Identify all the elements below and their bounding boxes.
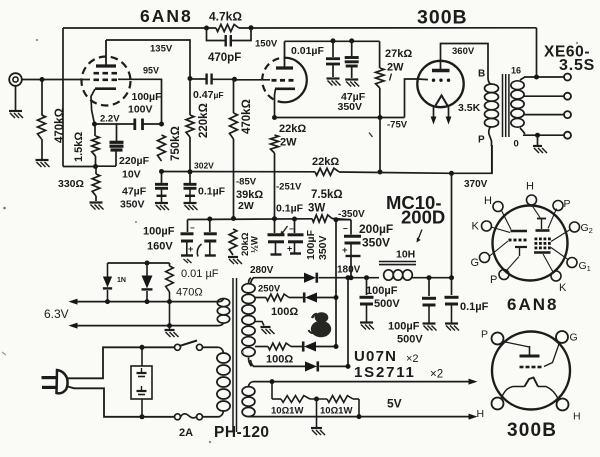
transformer T2 HV secondary winding bbox=[242, 284, 255, 293]
svg-text:22kΩ: 22kΩ bbox=[279, 123, 306, 135]
wire V1b plate stem bbox=[284, 41, 286, 66]
socket 300B pin H left bbox=[492, 398, 504, 410]
svg-text:470pF: 470pF bbox=[208, 52, 241, 64]
plug AC mains bbox=[57, 370, 68, 393]
wire bus to -350V corner bbox=[332, 219, 351, 220]
capacitor 100uF 500V second bbox=[428, 278, 430, 296]
svg-text:47µF: 47µF bbox=[122, 186, 147, 198]
ground 0.1uF bus bbox=[184, 202, 197, 204]
wire HV tap 250V lower bbox=[255, 346, 268, 348]
wire V2 plate to 360V bbox=[441, 44, 489, 79]
wire to fuse bbox=[142, 416, 174, 418]
capacitor 0.1uF output bbox=[451, 278, 453, 295]
node 27k bottom junction bbox=[378, 115, 383, 120]
resistor 100Ohm row3 bbox=[268, 343, 291, 350]
svg-text:B: B bbox=[478, 69, 485, 80]
tube V1a plate bar bbox=[96, 64, 116, 67]
wire 27k column to 302V bus bbox=[379, 118, 381, 173]
socket 300B base circle bbox=[492, 332, 570, 410]
node 47uF junction bbox=[349, 38, 354, 43]
socket 6AN8 pin K left bbox=[482, 221, 492, 231]
socket 300B grid dashes bbox=[520, 366, 524, 369]
svg-text:6AN8: 6AN8 bbox=[140, 6, 193, 26]
svg-text:5V: 5V bbox=[387, 397, 402, 411]
wire 470pF parallel loop bbox=[207, 28, 225, 41]
node 22k2W top junction bbox=[272, 115, 277, 120]
socket 300B pin G bbox=[556, 331, 568, 343]
resistor 22kOhm bus dropper bbox=[315, 168, 339, 175]
svg-text:750kΩ: 750kΩ bbox=[170, 126, 182, 161]
wire D1 to rail bbox=[319, 277, 380, 279]
svg-text:3.5K: 3.5K bbox=[458, 102, 481, 114]
wire screen 95V lead bbox=[118, 79, 162, 124]
svg-text:P: P bbox=[564, 198, 571, 210]
socket 6AN8 triode element bbox=[511, 230, 528, 233]
svg-text:−: − bbox=[289, 225, 294, 234]
wire 6.3V bottom lead bbox=[218, 323, 224, 326]
resistor 20kOhm halfW bleeder bbox=[229, 229, 237, 255]
node 750k bottom bbox=[159, 169, 164, 174]
node right drop junction bbox=[357, 414, 362, 419]
svg-text:G: G bbox=[471, 257, 480, 269]
svg-text:350V: 350V bbox=[120, 199, 145, 211]
capacitor line filter box bbox=[141, 347, 143, 366]
node D6 bottom junction bbox=[145, 299, 150, 304]
svg-text:3W: 3W bbox=[308, 203, 325, 215]
socket 300B plate bbox=[503, 342, 530, 348]
svg-text:2W: 2W bbox=[387, 62, 404, 74]
transformer T2 5V winding bbox=[242, 387, 255, 396]
wire 470k#2 column bbox=[233, 79, 235, 113]
socket 300B grid connection bbox=[544, 343, 560, 367]
mark ink blob bbox=[315, 312, 329, 323]
mark stray tick bbox=[390, 74, 392, 81]
capacitor 47uF 350V bus bypass bbox=[161, 172, 163, 184]
svg-text:3.5S: 3.5S bbox=[559, 57, 595, 74]
node line cap bottom bbox=[140, 414, 145, 419]
terminal speaker 0 bbox=[564, 132, 571, 139]
socket 6AN8 pin K bottom-right bbox=[551, 271, 561, 281]
svg-text:300B: 300B bbox=[507, 420, 557, 441]
svg-text:100µF: 100µF bbox=[143, 226, 175, 238]
svg-text:10H: 10H bbox=[396, 249, 415, 261]
svg-text:470kΩ: 470kΩ bbox=[54, 108, 66, 143]
wire 6.3V top line bbox=[77, 301, 218, 303]
ground 20k bleeder bbox=[228, 256, 238, 258]
node -350V corner junction bbox=[334, 217, 339, 222]
svg-text:302V: 302V bbox=[194, 161, 214, 171]
wire V1a cathode lead bbox=[91, 89, 95, 124]
node screen/100uF junction bbox=[159, 122, 164, 127]
svg-text:H: H bbox=[573, 411, 581, 423]
capacitor 0.01uF-B bbox=[209, 219, 211, 232]
wire primary bottom lead bbox=[218, 412, 224, 417]
wire input to grid bbox=[22, 79, 90, 81]
wire secondary tap 8 bbox=[524, 95, 564, 97]
node 370V junction bbox=[449, 171, 454, 176]
wire to switch bbox=[142, 346, 174, 348]
svg-text:H: H bbox=[484, 195, 492, 207]
node 470 on 6.3V top bbox=[167, 299, 172, 304]
node 10ohm left junction bbox=[270, 379, 275, 384]
wire 6.3V bottom line bbox=[77, 325, 218, 327]
node input jack J1 bbox=[9, 73, 22, 86]
svg-text:1N: 1N bbox=[117, 277, 126, 284]
svg-text:0.01µF: 0.01µF bbox=[291, 45, 324, 57]
svg-text:P: P bbox=[478, 135, 485, 146]
svg-text:6AN8: 6AN8 bbox=[507, 295, 558, 314]
tube V1a 6AN8 pentode envelope (dashed circle) bbox=[82, 57, 131, 106]
ground 0.01uF bbox=[327, 77, 340, 79]
ground 470k bbox=[36, 159, 49, 161]
wire V2 grid lead bbox=[418, 78, 429, 81]
resistor 10Ohm 1W left bbox=[272, 398, 281, 400]
node row4 riser bbox=[346, 364, 351, 369]
tube V1b cathode bar bbox=[275, 88, 295, 91]
node 22k2W bottom -251V bbox=[272, 216, 277, 221]
capacitor 470pF bbox=[224, 35, 226, 47]
terminal speaker 16 bbox=[564, 74, 571, 81]
wire V1a plate stem bbox=[105, 40, 107, 65]
wire 5V top rail bbox=[253, 381, 469, 383]
capacitor 47uF 350V decoupling bbox=[351, 41, 353, 56]
ground 47uF bus bbox=[155, 202, 168, 204]
svg-text:150V: 150V bbox=[255, 39, 278, 50]
node feedback/4.7k left bbox=[204, 26, 209, 31]
socket 6AN8 pin H upper-left bbox=[493, 202, 503, 212]
svg-text:350V: 350V bbox=[338, 101, 363, 113]
wire 5V top lead bbox=[249, 382, 254, 387]
wire secondary tap 4 bbox=[524, 114, 564, 116]
resistor 220kOhm bbox=[186, 115, 194, 137]
wire 135V plate line bbox=[106, 40, 190, 79]
svg-text:350V: 350V bbox=[317, 235, 329, 260]
diode D6 bias bbox=[146, 263, 148, 276]
svg-text:100Ω: 100Ω bbox=[271, 306, 298, 318]
resistor 470Ohm bias bbox=[169, 263, 171, 266]
node coupling junction 0.47uF bbox=[188, 76, 193, 81]
wire 220k bottom bbox=[189, 137, 191, 172]
socket 6AN8 pin P upper-right bbox=[553, 201, 563, 211]
svg-text:H: H bbox=[526, 181, 534, 193]
resistor 470kOhm triode grid leak bbox=[230, 113, 238, 139]
wire secondary tap 0 bbox=[520, 128, 525, 134]
svg-text:K: K bbox=[472, 221, 480, 233]
wire 5V bottom lead bbox=[249, 416, 254, 418]
node 0.01uF-B junction bbox=[207, 217, 212, 222]
svg-text:220µF: 220µF bbox=[119, 155, 150, 167]
fuse F1 2A bbox=[175, 414, 181, 420]
node row2/-350V junction bbox=[334, 295, 339, 300]
tube V1a cathode bar bbox=[95, 87, 116, 90]
capacitor 0.1uF at -251V bbox=[274, 219, 276, 233]
svg-text:220kΩ: 220kΩ bbox=[198, 103, 210, 138]
resistor 4.7kOhm feedback bbox=[216, 24, 239, 31]
svg-text:160V: 160V bbox=[147, 241, 173, 253]
wire 470k#2 down to -85V bus bbox=[233, 139, 235, 219]
capacitor 0.47uF coupling bbox=[190, 78, 206, 80]
wire -350V vertical bbox=[335, 220, 337, 347]
terminal speaker 8 bbox=[564, 93, 571, 100]
svg-text:H: H bbox=[477, 408, 485, 420]
svg-text:+: + bbox=[287, 244, 292, 254]
resistor 10Ohm 1W right bbox=[327, 396, 353, 403]
wire secondary tap 16 bbox=[520, 77, 525, 80]
svg-text:100µF: 100µF bbox=[388, 321, 420, 333]
svg-text:27kΩ: 27kΩ bbox=[385, 48, 412, 60]
ground hum balance bbox=[311, 427, 322, 429]
transformer T2 6.3V winding bbox=[217, 299, 229, 307]
svg-text:330Ω: 330Ω bbox=[58, 178, 84, 190]
node cathode bottom junction bbox=[93, 164, 98, 169]
diode D2 1S2711 (reversed) bbox=[305, 292, 317, 302]
ground 47uF bbox=[345, 78, 358, 80]
svg-text:+: + bbox=[342, 245, 348, 256]
svg-text:470Ω: 470Ω bbox=[176, 287, 203, 299]
capacitor 100uF 500V first bbox=[366, 278, 368, 295]
svg-text:100µF: 100µF bbox=[132, 91, 163, 103]
tube V1b 6AN8 triode envelope bbox=[285, 58, 307, 103]
wire 370V to OPT primary bbox=[452, 145, 493, 173]
wire plug cord bottom bbox=[66, 386, 142, 417]
capacitor 100uF 350V at -350V side bbox=[294, 219, 296, 233]
ground 330Ohm bbox=[90, 201, 103, 203]
svg-text:2.2V: 2.2V bbox=[100, 114, 120, 125]
mark stray scan specks bbox=[369, 133, 373, 138]
svg-text:½W: ½W bbox=[250, 236, 261, 253]
svg-text:10Ω1W: 10Ω1W bbox=[271, 406, 303, 417]
node 302V bus right end bbox=[378, 170, 383, 175]
wire fuse to primary bbox=[203, 416, 219, 418]
svg-text:95V: 95V bbox=[143, 66, 159, 76]
svg-text:500V: 500V bbox=[397, 334, 423, 346]
svg-text:−: − bbox=[343, 224, 348, 234]
svg-text:10Ω1W: 10Ω1W bbox=[320, 406, 352, 417]
node triode grid junction bbox=[232, 77, 237, 82]
svg-text:K: K bbox=[559, 282, 567, 294]
diode D4 U07N bbox=[305, 361, 317, 371]
capacitor 0.1uF bus bypass bbox=[189, 172, 191, 183]
mark arrow to 0.1uF bbox=[281, 226, 288, 235]
svg-text:+: + bbox=[188, 244, 193, 254]
svg-text:0.1µF: 0.1µF bbox=[198, 186, 226, 198]
wire HV center tap bbox=[255, 322, 264, 326]
transformer T2 PH-120 core bbox=[232, 278, 234, 432]
resistor 100Ohm row2 bbox=[266, 294, 289, 301]
svg-text:×2: ×2 bbox=[430, 369, 443, 381]
svg-text:-85V: -85V bbox=[236, 177, 257, 188]
node rail/0.1uF junction bbox=[449, 275, 454, 280]
svg-text:2W: 2W bbox=[238, 200, 254, 212]
svg-text:0.1µF: 0.1µF bbox=[276, 203, 304, 215]
node rail/200uF junction bbox=[349, 275, 354, 280]
wire feedback top run bbox=[63, 27, 216, 29]
wire 6.3V top lead bbox=[218, 299, 224, 302]
svg-text:10V: 10V bbox=[122, 169, 141, 181]
node junction input/470k bbox=[40, 77, 45, 82]
inductor L1 10H choke bbox=[379, 261, 416, 263]
wire 302V bus bbox=[162, 171, 316, 173]
wire row2 to diode bbox=[289, 297, 305, 299]
diode D3 1S2711 (reversed) bbox=[304, 341, 316, 351]
svg-text:100Ω: 100Ω bbox=[266, 354, 293, 366]
wire -75V run bbox=[275, 117, 405, 119]
socket 6AN8 base circle bbox=[493, 206, 568, 281]
wire 470k bottom lead bbox=[41, 139, 43, 159]
svg-text:1S2711: 1S2711 bbox=[354, 364, 416, 381]
node row3/-350V junction bbox=[334, 344, 339, 349]
svg-text:2A: 2A bbox=[179, 427, 193, 439]
svg-text:100µF: 100µF bbox=[366, 285, 398, 297]
node hum balance center bbox=[314, 397, 319, 402]
svg-text:0.1µF: 0.1µF bbox=[460, 301, 489, 313]
transformer T1 secondary winding bbox=[511, 81, 524, 90]
ground secondary 0 bbox=[533, 145, 542, 147]
wire HV tap 280V to diode bbox=[251, 278, 254, 284]
wire 370V riser to B+ rail bbox=[451, 173, 453, 277]
wire switch to primary bbox=[203, 346, 219, 348]
socket 6AN8 pin H top bbox=[527, 195, 537, 205]
wire choke to output node bbox=[412, 277, 452, 279]
node rail/row4 junction bbox=[346, 275, 351, 280]
wire feedback riser bbox=[536, 28, 538, 77]
capacitor 200uF 350V bias filter bbox=[350, 220, 352, 235]
svg-text:280V: 280V bbox=[250, 265, 274, 276]
wire HV bottom lead bbox=[249, 358, 252, 367]
tube V2 plate bar bbox=[432, 69, 450, 72]
svg-text:0.01 µF: 0.01 µF bbox=[181, 268, 219, 280]
svg-text:22kΩ: 22kΩ bbox=[312, 156, 339, 168]
wire HV tap 250V bbox=[255, 297, 266, 299]
svg-text:300B: 300B bbox=[417, 7, 468, 29]
transformer T1 XE60 primary lead B bbox=[488, 78, 491, 84]
svg-text:200µF: 200µF bbox=[359, 222, 393, 236]
wire V1b cathode lead bbox=[275, 89, 276, 118]
node bias/diode2 junction bbox=[145, 261, 150, 266]
wire 10ohm left drop bbox=[271, 382, 273, 399]
node line cap top bbox=[140, 345, 145, 350]
wire bus 22k to 370V node bbox=[339, 172, 452, 173]
wire 0 tap to ground bbox=[537, 135, 539, 145]
wire row4 riser bbox=[347, 278, 349, 367]
resistor 470kOhm input grid leak bbox=[38, 115, 46, 139]
socket 6AN8 pin P bottom-left bbox=[499, 270, 509, 280]
wire feedback vertical left bbox=[62, 28, 64, 167]
wire row3 to -350V line bbox=[291, 346, 304, 348]
diode D1 U07N bbox=[304, 273, 316, 283]
svg-text:7.5kΩ: 7.5kΩ bbox=[311, 189, 343, 201]
wire HV tap 280V lower to diode bbox=[251, 360, 254, 366]
capacitor 100uF 100V screen bypass bbox=[95, 123, 135, 125]
node feedback takeoff bbox=[534, 75, 539, 80]
wire grid to triode bbox=[235, 79, 271, 81]
svg-text:-75V: -75V bbox=[387, 120, 408, 131]
svg-text:180V: 180V bbox=[337, 265, 361, 276]
tube V2 300B envelope bbox=[417, 61, 463, 107]
wire bias top run bbox=[108, 262, 170, 264]
resistor 22kOhm 2W bbox=[271, 135, 279, 153]
svg-text:G: G bbox=[570, 332, 578, 344]
ground 6.3V line bbox=[169, 326, 171, 329]
wire 5V bottom rail bbox=[253, 416, 469, 418]
wire center tap to ground bbox=[316, 399, 318, 427]
resistor 1.5kOhm cathode bbox=[94, 124, 96, 136]
capacitor 0.01uF decoupling bbox=[332, 41, 334, 57]
switch power SW1 bbox=[175, 344, 181, 350]
wire V2 filament leads with arrows bbox=[433, 106, 435, 118]
node 220k bottom bbox=[188, 169, 193, 174]
node rail/100uF-1 junction bbox=[364, 275, 369, 280]
svg-text:0.47µF: 0.47µF bbox=[193, 89, 224, 101]
svg-text:200D: 200D bbox=[401, 207, 445, 228]
resistor 750kOhm bbox=[158, 135, 166, 161]
node 0.1uF-251 junction bbox=[292, 217, 297, 222]
socket 300B filament bbox=[525, 378, 539, 387]
capacitor 220uF 10V cathode bypass bbox=[116, 124, 118, 141]
tube V1b grid dashes bbox=[272, 79, 277, 82]
svg-text:-350V: -350V bbox=[338, 209, 365, 220]
wire -85V bus bbox=[188, 218, 313, 221]
wire right drop to 5V bottom bbox=[358, 399, 360, 417]
node D5 bottom junction bbox=[105, 299, 110, 304]
svg-text:2W: 2W bbox=[280, 137, 297, 149]
svg-text:360V: 360V bbox=[452, 46, 475, 57]
svg-text:16: 16 bbox=[511, 66, 521, 76]
wire input jack sleeve to ground bbox=[15, 86, 17, 110]
transformer T1 primary winding bbox=[485, 84, 499, 93]
wire HV top lead bbox=[249, 278, 252, 284]
diode D5 bias bbox=[107, 263, 109, 277]
socket 300B pin P bbox=[492, 333, 504, 345]
wire feedback into cathode bbox=[63, 166, 96, 168]
socket 6AN8 pin G lower-left bbox=[480, 253, 490, 263]
tube V1b plate bar bbox=[276, 66, 293, 69]
socket 6AN8 pentode element bbox=[537, 218, 546, 220]
svg-text:6.3V: 6.3V bbox=[44, 307, 69, 321]
transformer T1 primary lead P bbox=[489, 127, 492, 146]
svg-text:P: P bbox=[490, 274, 497, 286]
transformer T1 core bbox=[502, 74, 504, 137]
node rail/100uF-2 junction bbox=[427, 275, 432, 280]
ground input jack bbox=[9, 110, 22, 112]
node 470k2 bottom -85V bbox=[231, 216, 236, 221]
wire 300B grid riser bbox=[405, 79, 418, 118]
socket 6AN8 pin G2 right bbox=[570, 222, 580, 232]
svg-text:370V: 370V bbox=[464, 179, 488, 190]
socket 6AN8 pin G1 right bbox=[567, 258, 577, 268]
wire 220k column top bbox=[189, 79, 191, 116]
tube V2 grid dots bbox=[432, 79, 435, 82]
node 470 on 6.3V bottom bbox=[167, 323, 172, 328]
svg-text:PH-120: PH-120 bbox=[214, 424, 270, 441]
svg-text:P: P bbox=[481, 329, 488, 341]
svg-text:350V: 350V bbox=[362, 236, 390, 250]
socket 6AN8 internal connection lines bbox=[532, 205, 541, 218]
wire 470k top lead bbox=[41, 80, 43, 116]
socket 300B pin H right bbox=[557, 399, 569, 411]
wire plug cord top bbox=[66, 347, 142, 378]
tube V1a grid/screen dashes bbox=[94, 72, 100, 75]
resistor 330Ohm bbox=[95, 167, 97, 175]
resistor 7.5kOhm 3W bus bbox=[312, 215, 332, 222]
svg-text:U07N: U07N bbox=[354, 348, 397, 365]
mark arrow MC10 bbox=[418, 230, 422, 240]
svg-text:100V: 100V bbox=[128, 104, 153, 116]
svg-text:100µF: 100µF bbox=[305, 229, 317, 260]
terminal speaker 4 bbox=[564, 111, 571, 118]
node 0.01uF junction bbox=[331, 38, 336, 43]
transformer T2 primary winding bbox=[217, 353, 230, 363]
